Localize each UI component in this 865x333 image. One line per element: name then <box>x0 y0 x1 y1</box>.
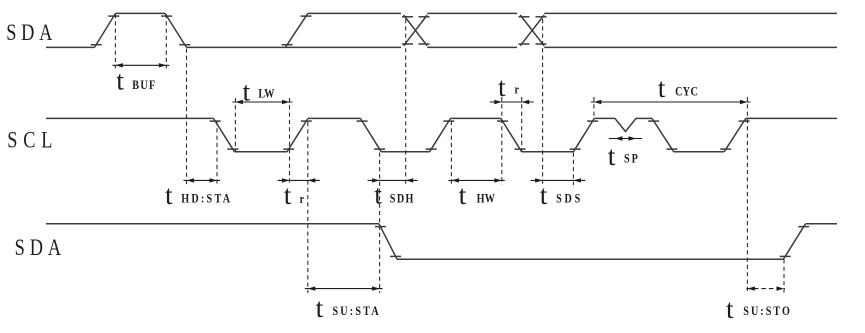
svg-text:BUF: BUF <box>132 78 156 92</box>
svg-text:SU:STA: SU:STA <box>332 304 380 318</box>
svg-text:t: t <box>165 179 173 210</box>
node X2 crossover falling diagonal <box>520 15 544 46</box>
svg-text:t: t <box>658 72 666 103</box>
dimension arrow t_BUF <box>112 63 169 67</box>
extension line t_r2 right <box>521 97 523 152</box>
svg-text:HW: HW <box>477 192 496 206</box>
svg-text:SU:STO: SU:STO <box>743 304 792 318</box>
svg-text:t: t <box>243 75 251 106</box>
svg-text:t: t <box>540 179 548 210</box>
wire SCL falling edge 2 <box>357 118 386 151</box>
extension line t_HW left <box>450 121 452 185</box>
extension line t_HW right / t_r2 left <box>501 97 503 185</box>
wire SCL high segment right <box>746 117 837 119</box>
label t_SDH <box>374 179 415 210</box>
wire SDA2 high segment right <box>806 223 838 225</box>
extension line SDA X1 (t_SDH right) <box>405 19 407 185</box>
dimension arrow t_SDH <box>368 178 418 182</box>
label t_CYC <box>658 72 698 103</box>
label SDA (bottom waveform) <box>15 234 66 261</box>
wire SCL falling edge 3 <box>497 118 526 151</box>
wire SCL rising edge 4 <box>720 118 749 151</box>
wire SDA2 rising edge <box>780 224 810 259</box>
extension line t_CYC left <box>593 97 595 118</box>
wire SDA1 high pulse top <box>116 12 166 14</box>
wire SDA1 low segment middle <box>187 46 402 48</box>
wire SCL low segment 2 <box>381 151 429 153</box>
extension line t_LW left <box>234 98 236 152</box>
dimension arrow t_SU:STO (dashed shaft) <box>746 286 785 290</box>
wire SCL high segment 2 <box>308 117 360 119</box>
svg-text:t: t <box>116 65 124 96</box>
wire SCL low segment 3 <box>522 151 574 153</box>
svg-text:t: t <box>498 71 506 102</box>
wire SDA1 bus low between X1-X2 <box>427 46 517 48</box>
wire SCL high segment left <box>46 117 214 119</box>
dimension arrow t_HW <box>448 178 504 182</box>
node X2 corner ticks <box>519 17 547 44</box>
extension line t_CYC right / t_SU:STO left <box>746 97 748 293</box>
svg-text:SP: SP <box>624 151 640 165</box>
label t_LW <box>243 75 275 106</box>
extension line SDA X2 (t_SDS left) <box>542 19 544 185</box>
extension line SCL rise (t_SDS right) <box>572 153 574 186</box>
wire SCL high segment 5 <box>636 117 652 119</box>
label t_r2 <box>498 71 519 102</box>
dimension arrow t_HD:STA <box>184 178 221 182</box>
wire SCL rising edge 2 <box>426 118 455 151</box>
svg-text:LW: LW <box>258 87 274 101</box>
wire SDA1 rising edge 1 <box>91 13 120 47</box>
label t_HW <box>459 179 496 210</box>
wire SDA1 falling edge 1 <box>161 13 190 47</box>
extension line SDA2 rise (t_SU:STO right) <box>783 259 785 292</box>
svg-text:r: r <box>300 192 304 206</box>
wire SDA1 low segment left <box>46 46 95 48</box>
label t_BUF <box>116 65 156 96</box>
label t_SU:STA <box>316 292 381 323</box>
extension line t_BUF right <box>165 14 167 69</box>
wire SCL low segment 1 <box>235 151 288 153</box>
wire SDA1 high segment <box>308 12 401 14</box>
dimension arrow t_r2 (SCL fall) <box>490 100 534 104</box>
extension line SDA start fall (t_HD:STA left) <box>186 49 188 186</box>
svg-text:t: t <box>316 292 324 323</box>
wire SDA2 falling edge <box>375 224 401 259</box>
label t_HD:STA <box>165 179 232 210</box>
dimension arrow t_r1 (SCL rise) <box>278 178 320 182</box>
wire SCL rising edge 1 <box>283 118 312 151</box>
node X2 crossover rising diagonal <box>520 15 544 46</box>
label t_SP <box>608 140 640 171</box>
svg-text:CYC: CYC <box>675 84 698 98</box>
wire SCL rising edge 3 <box>570 118 599 151</box>
wire SCL low segment 4 <box>674 151 724 153</box>
svg-text:t: t <box>608 140 616 171</box>
label SCL (middle waveform) <box>7 126 58 153</box>
wire SDA1 bus high right <box>544 12 837 14</box>
node SCL spike notch <box>615 118 636 131</box>
svg-text:SDS: SDS <box>556 192 583 206</box>
svg-text:t: t <box>284 179 292 210</box>
label t_r1 <box>284 179 304 210</box>
dimension arrow t_SDS <box>531 178 586 182</box>
wire SDA2 low segment <box>397 258 783 260</box>
svg-text:SDH: SDH <box>390 192 415 206</box>
svg-text:t: t <box>459 179 467 210</box>
node X1 crossover rising diagonal <box>404 15 428 46</box>
node X1 crossover falling diagonal <box>404 15 428 46</box>
wire SDA1 bus high between X1-X2 <box>427 12 517 14</box>
wire SDA1 rising edge 2 <box>282 13 312 47</box>
node X1 corner ticks <box>402 17 430 44</box>
label t_SDS <box>540 179 583 210</box>
svg-text:SDA: SDA <box>15 234 66 261</box>
label SDA (top waveform) <box>6 19 57 46</box>
dimension arrow t_SU:STA <box>305 286 383 290</box>
extension line SCL fall (t_HD:STA right) <box>216 121 218 185</box>
dimension arrow t_LW <box>232 100 292 104</box>
wire SCL high segment 4 <box>594 117 615 119</box>
extension line t_LW right / t_r left <box>289 98 291 185</box>
svg-text:SCL: SCL <box>7 126 58 153</box>
extension line SCL rise top (t_r right / t_SU:STA left) <box>307 122 309 293</box>
wire SCL falling edge 1 <box>210 118 239 151</box>
svg-text:t: t <box>726 293 734 324</box>
svg-text:HD:STA: HD:STA <box>181 192 232 206</box>
extension line SCL fall bottom (t_SDH left / t_SU:STA right) <box>379 153 381 294</box>
svg-text:SDA: SDA <box>6 19 57 46</box>
wire SDA2 high segment <box>46 223 379 225</box>
wire SCL falling edge 4 <box>648 118 677 151</box>
wire SCL high segment 3 <box>451 117 501 119</box>
dimension arrow t_SP <box>609 136 642 140</box>
wire SDA1 bus low right <box>544 46 837 48</box>
extension line t_BUF left <box>114 14 116 69</box>
label t_SU:STO <box>726 293 792 324</box>
svg-text:r: r <box>515 82 519 96</box>
svg-text:t: t <box>374 179 382 210</box>
dimension arrow t_CYC <box>591 100 751 104</box>
